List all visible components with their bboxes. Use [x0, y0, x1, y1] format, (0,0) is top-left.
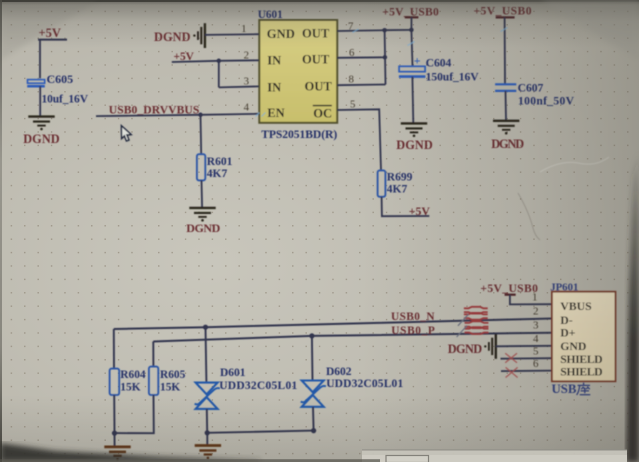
wire C605 to ground [39, 86, 41, 116]
wire pin2 [172, 60, 259, 62]
wire R601 to ground [201, 180, 204, 207]
svg-text:OUT: OUT [302, 52, 330, 66]
resistor R699 [378, 170, 386, 196]
junction (R604 bottom) [112, 431, 117, 436]
ground DGND (C605) [28, 117, 54, 131]
svg-text:D601: D601 [220, 367, 246, 379]
label R604 value [120, 369, 146, 393]
wire +5V_USB0 down [411, 17, 412, 66]
wire USB0_P (long) [153, 333, 552, 342]
label R601 value [207, 156, 233, 180]
ground DGND (C607) [493, 121, 519, 135]
ground DGND (R601) [189, 208, 215, 222]
wire USB0_N (long) [114, 319, 552, 330]
label USB座 [552, 382, 591, 396]
wire to C607 [504, 17, 506, 84]
junction (pin2) [217, 59, 222, 64]
ground (D601) [195, 446, 221, 460]
wire +5V to C605 [39, 40, 41, 79]
no-ERC mark (pin5) [505, 353, 517, 363]
resistor R601 [197, 154, 205, 180]
svg-text:IN: IN [267, 80, 281, 94]
wire pin7 rail [337, 30, 411, 31]
svg-text:UDD32C05L01: UDD32C05L01 [219, 380, 297, 392]
wire pin6 JP601 [501, 370, 552, 373]
svg-text:4K7: 4K7 [207, 168, 228, 180]
mouse cursor [122, 127, 132, 142]
svg-text:TPS2051BD(R): TPS2051BD(R) [261, 128, 337, 141]
ground DGND (C604) [401, 123, 427, 137]
svg-text:4: 4 [244, 101, 250, 113]
wire D601 to ground [206, 409, 208, 433]
wire pins 7-6-8 vertical [337, 30, 385, 85]
connector JP601 [550, 281, 615, 381]
label R699 value [387, 171, 413, 195]
pin numbers U601 right [348, 21, 355, 111]
no-ERC mark (pin6) [506, 367, 518, 377]
svg-text:DGND: DGND [186, 221, 220, 235]
svg-text:EN: EN [267, 106, 285, 120]
ground DGND (JP601 pin4) [484, 334, 496, 359]
wire C604 to ground [411, 77, 414, 124]
wire pin1 [205, 33, 259, 36]
ground DGND (pin 1) [193, 23, 205, 48]
resistor R605 [149, 367, 158, 395]
wire USB0_DRVVBUS [96, 114, 259, 116]
wire pin5 [337, 109, 381, 170]
label D602 [326, 366, 403, 390]
resistor R604 [110, 369, 120, 395]
diode D601 TVS [195, 383, 220, 409]
svg-text:C605: C605 [47, 72, 74, 86]
svg-text:DGND: DGND [23, 132, 60, 146]
capacitor C607 [495, 81, 575, 107]
diode D601 wire top [205, 327, 208, 382]
label R605 value [160, 369, 186, 393]
junction pin7/+5V_USB0 [409, 28, 414, 33]
svg-text:3: 3 [244, 76, 249, 88]
photo frame shading (decorative) [0, 0, 639, 5]
pin names U601 [267, 27, 333, 121]
pin names JP601 [560, 299, 603, 379]
wire pin1 JP601 [510, 295, 552, 305]
wire to R601 [200, 115, 203, 154]
junction (D601 bottom) [205, 430, 210, 435]
junction (D601 top) [203, 325, 208, 330]
power +5V_USB0 (C604) [382, 5, 439, 18]
capacitor C604 [399, 54, 479, 84]
svg-text:8: 8 [349, 73, 354, 85]
svg-text:15K: 15K [120, 381, 140, 393]
power +5V (top-left) [38, 26, 67, 40]
wire R605 bottom [115, 395, 154, 433]
capacitor C605 [27, 72, 88, 106]
junction (D602 bottom) [311, 428, 316, 433]
pin numbers U601 left [241, 23, 250, 113]
svg-text:5: 5 [350, 98, 355, 110]
svg-text:OUT: OUT [305, 80, 333, 94]
svg-text:OC: OC [313, 106, 332, 120]
svg-text:10uf_16V: 10uf_16V [42, 94, 89, 106]
junction (D602 top) [309, 333, 314, 338]
wire pin4 JP601 [496, 345, 552, 348]
wire D602 bottom [312, 407, 315, 431]
wire pin2-pin3 vertical [219, 61, 259, 88]
wire C607 to ground [505, 91, 508, 121]
svg-text:IN: IN [267, 54, 281, 68]
diode D602 wire top [311, 336, 314, 380]
pin numbers JP601 [532, 292, 539, 370]
svg-text:R604: R604 [120, 369, 146, 381]
power +5V_USB0 (JP601) [480, 282, 538, 295]
wire R699 to +5V [382, 197, 430, 216]
junction pin7/vertical [382, 28, 387, 33]
junction (pin4) [198, 113, 203, 118]
svg-text:R605: R605 [160, 369, 186, 381]
wire R604 to ground [113, 395, 115, 447]
svg-text:15K: 15K [160, 381, 180, 393]
wire D601-D602 bottom [207, 431, 313, 433]
diode D602 TVS [301, 381, 326, 407]
svg-text:R601: R601 [207, 156, 233, 168]
op-amp U601 power switch TPS2051BD [258, 9, 338, 141]
compile tick marks [256, 28, 508, 117]
photo shading overlays (decorative) [360, 0, 639, 462]
junction pin6/vertical [383, 55, 388, 60]
wire P corner to R605 [152, 342, 154, 367]
svg-text:D602: D602 [326, 366, 352, 378]
wire to ground (D601) [206, 433, 208, 446]
label D601 [219, 367, 297, 392]
wire N corner to R604 [113, 329, 115, 369]
ferrite/fuse F1 on USB0_N [458, 307, 488, 326]
scratch artifact [518, 193, 540, 240]
ferrite/fuse F2 on USB0_P [457, 321, 489, 337]
ground (R604) [104, 447, 130, 461]
power +5V_USB0 (C607) [474, 5, 532, 18]
wire pin5 JP601 [501, 357, 552, 360]
